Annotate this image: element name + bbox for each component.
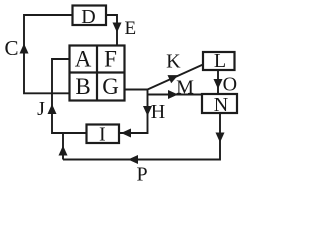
arrowhead E down [113,23,122,33]
svg-text:H: H [151,101,165,123]
wire P : N bottom -> down -> left -> riser [63,113,220,160]
arrowhead K up-right [168,75,179,83]
svg-text:M: M [176,77,194,99]
wire M junction -> N [148,94,204,96]
svg-text:I: I [99,123,106,145]
svg-text:E: E [124,18,136,39]
svg-text:D: D [81,6,95,28]
svg-text:N: N [214,94,228,116]
arrowhead H down [143,106,152,116]
svg-text:J: J [37,98,45,120]
box L [203,52,235,70]
svg-text:G: G [102,74,119,99]
2x2 grid box [70,46,125,101]
arrowhead P-horiz left [128,155,138,164]
wire C : B left -> up -> D [24,15,73,93]
wire J : I left -> up -> into A [52,59,87,133]
wire K diagonal junction -> L [148,65,204,90]
wire G out to junction [125,89,148,91]
svg-text:F: F [104,47,117,72]
arrowhead J up [48,104,57,114]
arrowhead O down [214,79,223,89]
svg-text:B: B [75,74,90,99]
wire O : L bottom -> N top [217,70,219,94]
svg-text:K: K [166,51,181,73]
arrowhead C up [20,44,29,54]
svg-text:L: L [214,50,226,72]
svg-text:C: C [4,36,18,60]
wire riser from P line up to J wire [62,133,64,160]
box N [202,94,237,113]
svg-text:A: A [75,47,92,72]
box I [87,125,120,144]
svg-text:O: O [223,74,237,96]
wire E : D right -> down into F [106,15,117,46]
svg-text:P: P [136,163,147,185]
arrowhead riser up [59,146,68,156]
arrowhead M right [168,90,178,99]
wire H junction -> down -> left into I [119,90,148,134]
arrowhead P-vert down [216,133,225,143]
box D [73,6,107,26]
arrowhead into I left [121,129,131,138]
